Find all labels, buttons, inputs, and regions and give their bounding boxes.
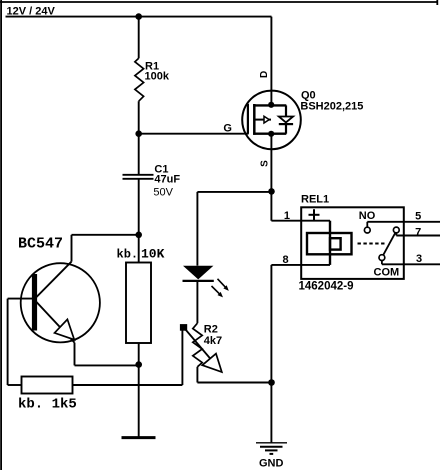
- svg-text:R2: R2: [204, 323, 218, 335]
- wire C1 to collector node: [138, 180, 140, 235]
- relay contact NO: [366, 222, 368, 227]
- node ground junction: [268, 379, 275, 386]
- relay REL1: [301, 207, 404, 279]
- wire R2 to ground node: [196, 367, 198, 383]
- border top: [0, 1, 438, 3]
- transistor Q BC547: [8, 235, 139, 366]
- wire base to kb.1k5: [7, 299, 9, 385]
- R2 wiper arrow: [186, 330, 218, 367]
- svg-text:100k: 100k: [145, 71, 170, 83]
- channel bar: [253, 104, 256, 135]
- wire R1 to gate node: [138, 101, 140, 134]
- svg-text:Q0: Q0: [301, 89, 316, 101]
- wire relay pin 1: [271, 220, 330, 222]
- wire rail to R1: [138, 17, 140, 59]
- wire to GND: [270, 383, 272, 443]
- body diode: [285, 105, 287, 116]
- svg-text:kb.: kb.: [117, 248, 139, 262]
- ground GND: [256, 443, 287, 454]
- resistor kb. 10K: [126, 263, 151, 344]
- junction rail/R1: [135, 13, 142, 20]
- node 12V/24V supply rail: [6, 16, 272, 18]
- svg-text:BSH202,215: BSH202,215: [300, 101, 363, 113]
- wire gate: [139, 133, 249, 135]
- bottom rail: [253, 132, 286, 134]
- node collector junction: [135, 232, 142, 239]
- wire source: [270, 134, 272, 221]
- mid stub with arrow: [256, 119, 272, 121]
- wire pin 7: [396, 235, 440, 237]
- svg-text:50V: 50V: [153, 186, 173, 198]
- wire pin 3: [382, 263, 440, 265]
- svg-text:BC547: BC547: [18, 236, 63, 253]
- wire node to kb.10K: [138, 235, 140, 263]
- svg-text:3: 3: [416, 253, 422, 265]
- svg-text:47uF: 47uF: [154, 174, 180, 186]
- wire collector to node: [72, 234, 139, 236]
- LED D1: [183, 266, 213, 280]
- wire drain: [270, 17, 272, 105]
- resistor R1 100k: [135, 58, 144, 101]
- svg-text:REL1: REL1: [301, 194, 329, 206]
- LED light arrows: [218, 279, 227, 288]
- relay contact pin 7 armature: [393, 227, 399, 233]
- svg-text:4k7: 4k7: [204, 335, 222, 347]
- svg-text:1: 1: [284, 210, 290, 222]
- wire node to C1: [138, 134, 140, 174]
- wire relay pin 8: [271, 264, 330, 266]
- relay plus mark: [309, 214, 320, 216]
- node gate junction: [135, 130, 142, 137]
- gate bar: [247, 104, 249, 134]
- drain dot: [268, 102, 274, 108]
- svg-text:5: 5: [415, 210, 421, 222]
- svg-text:1462042-9: 1462042-9: [299, 281, 354, 293]
- svg-text:S: S: [259, 160, 270, 167]
- wire node to ground bar: [138, 365, 140, 437]
- svg-text:7: 7: [415, 227, 421, 239]
- resistor kb. 1k5: [22, 377, 73, 394]
- svg-text:GND: GND: [259, 458, 284, 470]
- wire source node to LED: [197, 191, 271, 193]
- wire LED to R2: [196, 282, 198, 323]
- svg-text:10K: 10K: [141, 247, 165, 262]
- relay contact COM: [379, 255, 385, 261]
- capacitor C1 47uF: [123, 174, 154, 176]
- trimmer R2 4k7: [193, 323, 202, 367]
- svg-text:COM: COM: [374, 266, 400, 278]
- relay switch arm: [383, 233, 395, 255]
- node emitter junction: [135, 361, 142, 368]
- relay dashed actuator link: [358, 243, 386, 245]
- svg-text:8: 8: [282, 254, 288, 266]
- relay coil: [329, 221, 331, 265]
- svg-text:D: D: [259, 71, 270, 78]
- wire pin 8 to ground node: [270, 265, 272, 383]
- svg-text:NO: NO: [359, 210, 376, 222]
- svg-text:kb. 1k5: kb. 1k5: [18, 397, 77, 413]
- wire kb.10K to emitter node: [138, 343, 140, 365]
- border left: [0, 0, 2, 470]
- wire pin 5: [367, 221, 440, 223]
- source dot: [268, 131, 274, 137]
- wire kb.1k5 to R2 wiper: [73, 384, 183, 386]
- svg-text:12V / 24V: 12V / 24V: [7, 5, 56, 17]
- node source/LED junction: [268, 188, 275, 195]
- top rail: [253, 104, 286, 106]
- ground (left column): [122, 436, 156, 439]
- mosfet Q0 BSH202,215: [242, 91, 301, 150]
- R2 wiper square: [180, 324, 187, 331]
- border right stub: [436, 0, 438, 5]
- svg-text:G: G: [223, 123, 232, 135]
